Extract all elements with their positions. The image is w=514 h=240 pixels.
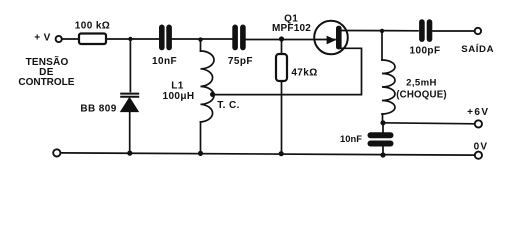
svg-text:75pF: 75pF: [228, 56, 253, 67]
svg-text:MPF102: MPF102: [272, 23, 311, 34]
svg-text:L1: L1: [171, 80, 184, 91]
svg-text:10nF: 10nF: [340, 133, 362, 144]
svg-text:10nF: 10nF: [152, 56, 177, 67]
svg-text:100pF: 100pF: [410, 46, 441, 57]
svg-text:CONTROLE: CONTROLE: [18, 77, 74, 88]
svg-text:BB 809: BB 809: [80, 104, 116, 115]
svg-text:2,5mH: 2,5mH: [406, 77, 437, 88]
svg-text:+ V: + V: [34, 32, 51, 43]
svg-text:SAÍDA: SAÍDA: [461, 43, 494, 55]
svg-text:47kΩ: 47kΩ: [291, 68, 317, 79]
svg-text:100 kΩ: 100 kΩ: [75, 20, 110, 31]
svg-text:0V: 0V: [474, 141, 489, 152]
svg-text:100μH: 100μH: [162, 91, 194, 102]
svg-text:T. C.: T. C.: [217, 100, 240, 111]
svg-text:(CHOQUE): (CHOQUE): [396, 90, 447, 101]
svg-text:+6V: +6V: [467, 107, 489, 118]
